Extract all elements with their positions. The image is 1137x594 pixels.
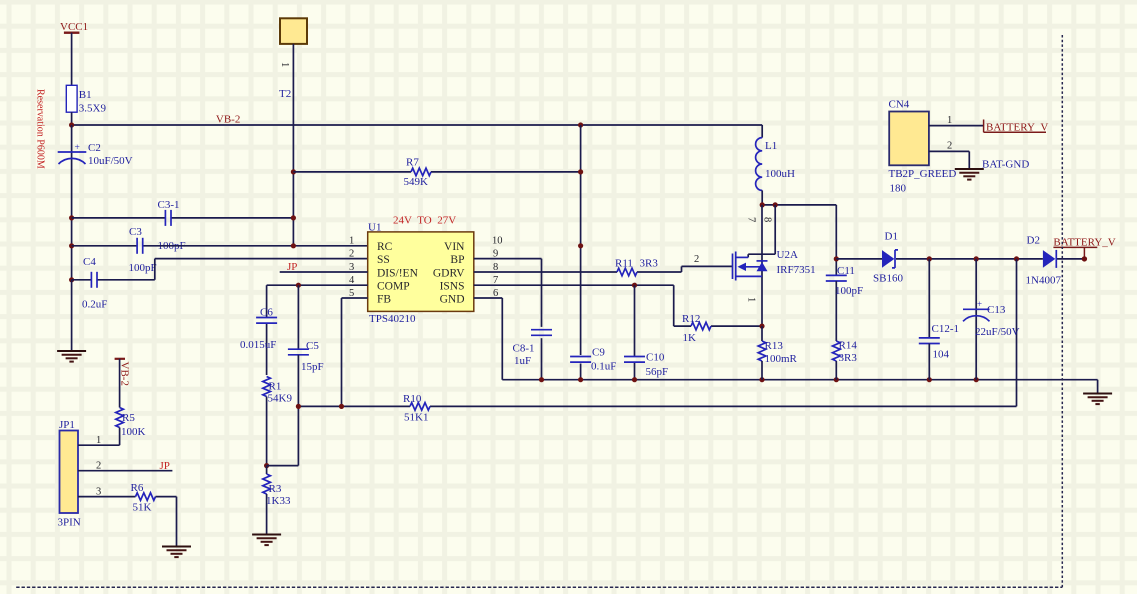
wire DIS line	[280, 271, 368, 273]
capacitor C6	[240, 307, 277, 352]
op-amp U1 TPS40210	[368, 222, 474, 326]
wire bus to right ground	[1097, 380, 1099, 393]
resistor R1	[263, 377, 293, 405]
svg-text:100uH: 100uH	[765, 168, 795, 180]
svg-text:VCC1: VCC1	[60, 21, 88, 33]
svg-text:U1: U1	[368, 222, 381, 234]
power port BATTERY_V at CN4	[984, 120, 1049, 134]
svg-text:+: +	[75, 143, 80, 153]
svg-text:VB-2: VB-2	[216, 114, 240, 126]
svg-text:+: +	[977, 299, 982, 309]
resistor R12	[682, 313, 711, 344]
svg-text:C4: C4	[83, 256, 96, 268]
wire C3-1 line	[72, 217, 294, 219]
junction bus C9	[578, 377, 583, 382]
svg-text:24V TO 27V: 24V TO 27V	[393, 214, 456, 226]
wire node link	[267, 406, 299, 465]
svg-text:FB: FB	[377, 293, 391, 305]
svg-text:C6: C6	[260, 307, 273, 319]
capacitor C5	[288, 285, 324, 406]
svg-text:JP1: JP1	[59, 419, 75, 431]
junction R10 C5	[296, 404, 301, 409]
svg-text:VB-2: VB-2	[119, 362, 131, 386]
svg-text:2: 2	[349, 248, 354, 259]
svg-text:2: 2	[947, 141, 952, 152]
connector CN4	[889, 99, 957, 195]
capacitor C11	[826, 259, 863, 341]
power port VCC1	[60, 21, 88, 85]
svg-text:R14: R14	[839, 340, 858, 352]
svg-text:15pF: 15pF	[301, 361, 324, 373]
pin RC 1	[349, 236, 393, 254]
wire ISNS line	[474, 284, 674, 286]
connector JP1	[58, 419, 81, 529]
junction bus C12-1	[927, 377, 932, 382]
svg-text:R12: R12	[682, 313, 700, 325]
resistor R10	[403, 393, 430, 424]
svg-text:51K: 51K	[133, 502, 152, 514]
ground BAT-GND	[955, 169, 984, 180]
svg-text:C2: C2	[88, 142, 101, 154]
pin DIS/EN 3	[349, 262, 419, 280]
pin 1 of T2	[279, 62, 290, 67]
svg-text:0.1uF: 0.1uF	[591, 361, 616, 373]
wire COMP line	[267, 284, 368, 286]
wire output line	[836, 258, 1084, 260]
svg-text:1: 1	[349, 236, 354, 247]
pin GDRV 8	[433, 262, 498, 280]
svg-text:R13: R13	[765, 340, 784, 352]
junction output C13	[974, 256, 979, 261]
svg-text:3PIN: 3PIN	[58, 517, 81, 529]
wire C6 branch	[266, 285, 268, 375]
diode D1 SB160	[873, 231, 903, 285]
power port VB-2 at R5	[115, 359, 131, 386]
svg-text:10uF/50V: 10uF/50V	[88, 155, 133, 167]
resistor R5	[116, 359, 146, 445]
junction bus R13	[759, 377, 764, 382]
border dashed bottom	[16, 586, 1062, 588]
svg-text:1N4007: 1N4007	[1026, 275, 1062, 287]
diode D2 1N4007	[1026, 235, 1062, 287]
svg-text:SB160: SB160	[873, 273, 903, 285]
svg-text:C8-1: C8-1	[513, 343, 535, 355]
svg-text:100K: 100K	[121, 426, 146, 438]
pin BP 9	[450, 248, 498, 266]
svg-text:DIS/!EN: DIS/!EN	[377, 267, 419, 279]
svg-text:0.015uF: 0.015uF	[240, 339, 276, 351]
pin 3 of JP1	[78, 486, 136, 497]
svg-text:2: 2	[96, 461, 101, 472]
svg-text:1: 1	[279, 62, 290, 67]
svg-text:CN4: CN4	[889, 99, 910, 111]
svg-text:VIN: VIN	[444, 241, 465, 253]
svg-text:0.2uF: 0.2uF	[82, 299, 107, 311]
svg-text:104: 104	[933, 349, 950, 361]
junction output R10	[1014, 256, 1019, 261]
svg-text:BP: BP	[450, 254, 464, 266]
svg-text:1K33: 1K33	[266, 495, 291, 507]
wire R6 to ground	[176, 497, 178, 546]
junction COMP C5	[296, 283, 301, 288]
svg-text:SS: SS	[377, 254, 390, 266]
capacitor C12-1	[919, 259, 959, 380]
svg-text:ISNS: ISNS	[440, 281, 465, 293]
svg-text:B1: B1	[79, 89, 92, 101]
wire BP branch	[474, 259, 542, 380]
svg-text:D2: D2	[1027, 235, 1040, 247]
junction VB-2 left	[69, 122, 74, 127]
junction VIN	[578, 243, 583, 248]
svg-text:GDRV: GDRV	[433, 267, 465, 279]
svg-text:8: 8	[762, 217, 773, 222]
junction bus C10	[632, 377, 637, 382]
wire VB-2 horizontal	[72, 124, 763, 126]
svg-text:1: 1	[947, 115, 952, 126]
svg-text:C11: C11	[837, 265, 855, 277]
pin GND 6	[440, 288, 499, 306]
junction C4 line left	[69, 277, 74, 282]
part T2	[279, 18, 307, 100]
svg-text:1K: 1K	[683, 332, 697, 344]
svg-text:T2: T2	[279, 88, 291, 100]
svg-text:10: 10	[492, 236, 503, 247]
svg-text:D1: D1	[885, 231, 898, 243]
junction bus C13	[974, 377, 979, 382]
svg-text:22uF/50V: 22uF/50V	[975, 326, 1020, 338]
svg-text:TB2P_GREED: TB2P_GREED	[889, 168, 957, 180]
svg-text:180: 180	[890, 183, 907, 195]
svg-text:C10: C10	[646, 352, 665, 364]
junction C3-1 line left	[69, 215, 74, 220]
pin ISNS 7	[440, 275, 499, 293]
pin 1 of JP1	[78, 435, 120, 446]
capacitor C2	[58, 142, 133, 167]
junction R10 FB	[339, 404, 344, 409]
junction R7 right	[578, 169, 583, 174]
net label BAT-GND	[982, 159, 1029, 171]
svg-text:R1: R1	[269, 381, 282, 393]
pin 7 of U2A	[746, 217, 757, 222]
wire B1 to VB-2	[71, 112, 73, 125]
svg-text:R6: R6	[131, 482, 144, 494]
net label 24V TO 27V	[393, 214, 456, 226]
ground R6	[162, 547, 191, 558]
svg-text:100mR: 100mR	[765, 353, 798, 365]
junction T2 C3-1	[291, 215, 296, 220]
svg-text:C5: C5	[306, 340, 319, 352]
svg-text:JP: JP	[160, 460, 170, 472]
junction C3 line left	[69, 243, 74, 248]
svg-text:100pF: 100pF	[835, 285, 863, 297]
svg-text:COMP: COMP	[377, 281, 410, 293]
ground right	[1083, 394, 1112, 405]
pin 2 of U2A	[694, 254, 699, 265]
wire GND pin branch	[474, 298, 503, 380]
wire T2 vertical	[292, 44, 294, 246]
svg-text:1: 1	[96, 435, 101, 446]
svg-text:R11: R11	[615, 258, 633, 270]
svg-text:R7: R7	[406, 157, 419, 169]
svg-text:IRF7351: IRF7351	[777, 264, 816, 276]
pin 2 of JP1	[78, 461, 172, 472]
svg-text:3: 3	[96, 486, 101, 497]
wire R10 line	[298, 405, 1016, 407]
net label JP	[287, 261, 297, 273]
svg-text:1uF: 1uF	[514, 355, 531, 367]
resistor R14	[833, 340, 858, 380]
pin 1 of U2A	[746, 297, 757, 302]
ground left	[57, 351, 86, 362]
svg-text:3R3: 3R3	[839, 352, 858, 364]
resistor B1	[66, 85, 106, 114]
wire VIN drop vertical	[580, 125, 582, 380]
svg-text:R10: R10	[403, 393, 422, 405]
pin 2 of CN4	[929, 141, 969, 169]
junction T2 R7	[291, 169, 296, 174]
junction divider node	[264, 463, 269, 468]
resistor R3	[263, 466, 291, 534]
resistor R7	[404, 157, 432, 189]
transistor U2A IRF7351	[733, 205, 816, 326]
ground R3	[252, 535, 281, 546]
svg-text:C3-1: C3-1	[158, 199, 180, 211]
net label JP at JP1	[160, 460, 170, 472]
junction C11 output	[834, 256, 839, 261]
capacitor C10	[624, 352, 668, 379]
svg-text:1: 1	[746, 297, 757, 302]
svg-text:L1: L1	[765, 140, 777, 152]
wire C10 branch	[634, 285, 636, 380]
svg-text:2: 2	[694, 254, 699, 265]
svg-text:549K: 549K	[404, 176, 429, 188]
svg-text:U2A: U2A	[777, 249, 798, 261]
junction VB-2 VIN drop	[578, 122, 583, 127]
wire R12 branch	[674, 285, 762, 326]
svg-text:51K1: 51K1	[404, 412, 428, 424]
junction bus R14	[834, 377, 839, 382]
svg-text:JP: JP	[287, 261, 297, 273]
junction ISNS C10	[632, 283, 637, 288]
svg-text:C9: C9	[592, 347, 605, 359]
text Reservation P600M	[35, 89, 46, 169]
pin COMP 4	[349, 275, 410, 293]
capacitor C3-1	[158, 199, 186, 252]
border dashed vertical	[1061, 35, 1063, 587]
wire R10 vertical	[1016, 259, 1018, 407]
svg-text:C12-1: C12-1	[932, 323, 960, 335]
svg-text:C13: C13	[987, 304, 1006, 316]
resistor R11	[615, 258, 658, 276]
capacitor C4	[82, 256, 107, 311]
resistor R13	[758, 326, 797, 380]
svg-text:RC: RC	[377, 241, 393, 253]
wire ground bus	[502, 379, 1097, 381]
wire R1 to node	[266, 397, 268, 466]
pin 8 of U2A	[762, 217, 773, 222]
wire GDRV line	[474, 266, 733, 272]
capacitor C13	[963, 259, 1020, 380]
capacitor C8-1	[513, 330, 553, 367]
pin VIN 10	[444, 236, 502, 254]
svg-text:BATTERY_V: BATTERY_V	[986, 122, 1048, 134]
svg-text:3.5X9: 3.5X9	[79, 103, 107, 115]
svg-text:TPS40210: TPS40210	[369, 313, 416, 325]
svg-text:R3: R3	[269, 483, 282, 495]
svg-text:56pF: 56pF	[646, 366, 669, 378]
wire C4 SS line	[72, 259, 368, 280]
inductor L1	[756, 125, 795, 205]
pin FB 5	[349, 288, 391, 306]
svg-text:BAT-GND: BAT-GND	[982, 159, 1029, 171]
svg-text:54K9: 54K9	[268, 393, 293, 405]
capacitor C9	[570, 347, 616, 373]
svg-text:R5: R5	[122, 412, 135, 424]
power port BATTERY_V at D2	[1053, 237, 1115, 262]
svg-text:7: 7	[746, 217, 757, 222]
pin 1 of CN4	[929, 115, 984, 126]
junction source R12	[759, 324, 764, 329]
svg-text:3R3: 3R3	[640, 258, 659, 270]
junction bus C8-1	[539, 377, 544, 382]
resistor R6	[131, 482, 177, 514]
junction diode drain	[773, 202, 778, 207]
wire R7 line	[293, 171, 580, 173]
wire left vertical	[71, 125, 73, 280]
wire drain top line	[762, 205, 836, 259]
wire to left ground	[71, 280, 73, 351]
svg-text:C3: C3	[129, 226, 142, 238]
svg-text:Reservation P600M: Reservation P600M	[35, 89, 46, 169]
junction output C12-1	[927, 256, 932, 261]
junction L1 drain	[760, 202, 765, 207]
svg-text:100pF: 100pF	[129, 262, 157, 274]
svg-text:GND: GND	[440, 293, 465, 305]
pin SS 2	[349, 248, 390, 266]
net label VB-2	[216, 114, 240, 126]
wire FB branch	[342, 298, 368, 406]
capacitor C3	[129, 226, 157, 274]
wire C3 RC line	[72, 245, 368, 247]
junction T2 RC	[291, 243, 296, 248]
